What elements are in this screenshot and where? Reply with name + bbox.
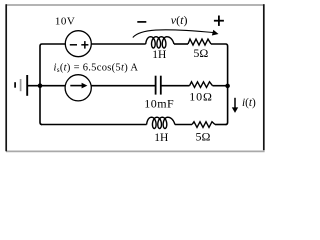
current arrow i(t) [232,98,238,113]
minus sign of v(t) [137,21,146,23]
wire top right segment [211,44,228,125]
wire ground to junction [27,85,65,87]
svg-text:10Ω: 10Ω [189,89,213,103]
current source is(t) [65,75,91,101]
svg-text:5Ω: 5Ω [193,46,208,60]
current source arrow [70,83,87,89]
wire bottom right segment [215,124,227,126]
resistor 5ohm bottom [192,122,215,128]
inductor 1H top [146,37,174,48]
wire bottom between inductor and resistor [175,124,192,126]
wire top between inductor and resistor [174,43,188,45]
resistor 10ohm [190,82,213,88]
svg-text:1H: 1H [154,132,168,144]
wire top left segment [40,44,65,46]
border frame [6,4,265,151]
ground symbol [15,75,27,96]
voltage source 10V [65,31,91,57]
svg-text:10mF: 10mF [144,96,174,110]
svg-text:is(t) = 6.5cos(5t) A: is(t) = 6.5cos(5t) A [54,62,139,74]
wire middle: source to capacitor [91,85,155,87]
wire middle right segment [213,85,228,87]
svg-text:5Ω: 5Ω [196,130,211,144]
wire top middle segment [91,43,145,45]
plus sign of v(t) [214,16,224,26]
plus terminal mark [81,41,88,49]
svg-text:v(t): v(t) [171,13,188,27]
wire middle: capacitor to resistor [161,85,190,87]
resistor 5ohm top [188,39,211,45]
svg-text:10V: 10V [55,16,75,28]
v(t) reference arrow arc [133,30,219,38]
wire bottom left segment [41,124,147,126]
capacitor 10mF [156,76,161,95]
svg-text:i(t): i(t) [242,97,256,109]
wire left vertical [40,46,42,125]
svg-text:1H: 1H [152,49,166,61]
inductor 1H bottom [147,117,175,128]
junction node left [38,83,43,88]
minus terminal mark [70,44,77,46]
junction node right [225,84,230,89]
